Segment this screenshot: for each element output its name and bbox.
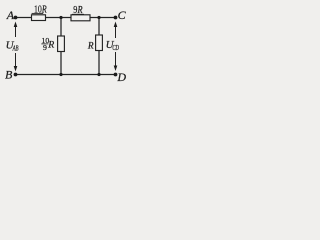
voltage arrow U_AB upper <box>14 22 18 38</box>
resistor 10R <box>32 15 46 21</box>
underline of 10R <box>32 12 44 14</box>
wire branch right <box>98 18 100 75</box>
svg-text:A: A <box>6 8 15 22</box>
resistor 9R <box>71 15 90 21</box>
resistor 10/9 R <box>58 36 65 52</box>
svg-text:C: C <box>118 8 127 22</box>
svg-text:D: D <box>116 70 126 84</box>
svg-text:AB: AB <box>12 45 19 52</box>
wire top A to C <box>16 17 116 19</box>
svg-text:9: 9 <box>43 43 47 52</box>
node C <box>114 16 118 20</box>
fraction bar <box>41 43 48 45</box>
node D <box>114 73 118 77</box>
junction bottom-mid <box>59 73 62 76</box>
junction bottom-right <box>97 73 100 76</box>
voltage arrow U_AB lower <box>14 53 18 72</box>
junction top-right <box>97 16 100 19</box>
svg-text:R: R <box>87 41 94 51</box>
svg-text:CD: CD <box>112 45 119 52</box>
wire bottom B to D <box>16 74 116 76</box>
underline of 9R <box>72 13 84 15</box>
resistor R <box>96 35 103 51</box>
voltage arrow U_CD upper <box>114 22 118 39</box>
svg-text:R: R <box>47 40 54 51</box>
circuit schematic: bridge of resistors between terminals A,B and C,D <box>0 0 136 90</box>
svg-text:B: B <box>5 68 13 82</box>
junction top-mid <box>59 16 62 19</box>
node B <box>14 73 18 77</box>
voltage arrow U_CD lower <box>114 52 118 71</box>
wire branch mid <box>60 18 62 75</box>
node A <box>14 16 18 20</box>
